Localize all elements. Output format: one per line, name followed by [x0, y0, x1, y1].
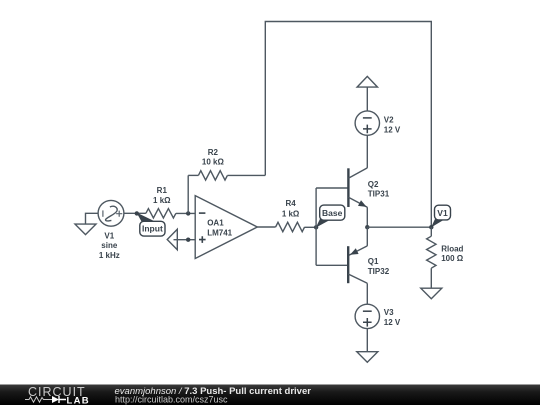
wire feedback loop up over top to output node [265, 22, 431, 228]
svg-text:Q1: Q1 [368, 257, 379, 266]
svg-text:V3: V3 [384, 308, 394, 317]
transistor Q1 emitter wire from output node [366, 227, 368, 246]
svg-text:http://circuitlab.com/csz7usc: http://circuitlab.com/csz7usc [115, 394, 228, 404]
wire Q1 collector down to V3 [366, 283, 368, 304]
wire to Q1 base [316, 264, 348, 266]
logo zigzag wire [25, 397, 52, 402]
V1 minus tick [102, 210, 104, 216]
wire Q2 collector up to V2 [366, 135, 368, 168]
voltage source V1 circle [98, 200, 124, 226]
V3 minus sign [363, 310, 372, 312]
node inverting input junction dot [186, 211, 190, 215]
flag Input box [140, 221, 165, 236]
svg-text:12 V: 12 V [384, 125, 401, 134]
wire V1 node to Rload [430, 227, 432, 236]
wire Q2 emitter down to output node [366, 207, 368, 227]
wire emitters junction to V1 node [367, 226, 431, 228]
wire arrow to V2 [366, 87, 368, 111]
svg-text:R4: R4 [285, 199, 296, 208]
svg-text:V1: V1 [104, 232, 114, 241]
transistor Q1 base bar [347, 246, 349, 283]
svg-text:12 V: 12 V [384, 318, 401, 327]
svg-text:Q2: Q2 [368, 180, 379, 189]
wire V1 to R1 [124, 212, 146, 214]
ground (op-amp non-inverting input, rotated left) [167, 229, 177, 250]
svg-text:Rload: Rload [441, 245, 463, 254]
wire R4 to base rail [305, 226, 317, 228]
svg-text:10 kΩ: 10 kΩ [202, 158, 225, 167]
wire junction up to R2 [187, 175, 189, 213]
resistor R2 [198, 171, 227, 180]
wire Rload to ground [430, 268, 432, 288]
svg-text:V2: V2 [384, 116, 394, 125]
wire op-amp output to R4 [257, 226, 275, 228]
wire V1 left lead to ground [86, 213, 99, 224]
svg-text:OA1: OA1 [207, 218, 224, 227]
svg-text:Base: Base [322, 208, 343, 218]
svg-text:sine: sine [101, 241, 118, 250]
Q2 collector diagonal [348, 168, 367, 178]
node plus input junction dot [186, 238, 190, 242]
node V1 output junction dot [429, 225, 433, 229]
power arrow above V2 [357, 76, 377, 87]
resistor Rload [427, 236, 436, 268]
Q1 collector diagonal [348, 274, 367, 283]
flag Base pointer [316, 219, 330, 228]
logo diode symbol [52, 396, 59, 403]
ground (left of V1) [75, 224, 96, 235]
svg-text:100 Ω: 100 Ω [441, 254, 464, 263]
svg-text:TIP31: TIP31 [368, 190, 390, 199]
transistor Q2 base bar [347, 168, 349, 207]
flag V1 pointer [431, 219, 444, 228]
node output emitters junction dot [365, 225, 369, 229]
V3 plus sign [363, 318, 372, 327]
V2 minus sign [363, 117, 372, 119]
OA1 minus input sign [199, 212, 206, 214]
node Input junction dot [135, 211, 139, 215]
svg-text:R1: R1 [157, 186, 168, 195]
svg-text:1 kΩ: 1 kΩ [282, 209, 300, 218]
flag V1 box [435, 205, 451, 220]
wire R2 right lead [227, 174, 265, 176]
svg-text:LM741: LM741 [207, 229, 232, 238]
wire base rail vertical [315, 188, 317, 265]
footer bar [0, 385, 540, 405]
svg-text:R2: R2 [208, 148, 219, 157]
svg-text:1 kΩ: 1 kΩ [153, 196, 171, 205]
V2 plus sign [363, 125, 372, 134]
wire ground to op-amp plus input [174, 239, 196, 241]
resistor R4 [276, 222, 305, 231]
ground (below V3) [357, 352, 378, 363]
svg-text:LAB: LAB [67, 395, 90, 405]
V1 sine squiggle [106, 206, 118, 221]
wire to Q2 base [316, 187, 348, 189]
voltage source V3 circle [355, 304, 379, 328]
op-amp OA1 triangle [195, 196, 257, 259]
flag Base box [320, 205, 345, 220]
wire R2 left lead [188, 174, 198, 176]
Q1 emitter arrow [350, 248, 359, 255]
svg-text:TIP32: TIP32 [368, 267, 390, 276]
resistor R1 [146, 209, 176, 218]
Q1 emitter diagonal [348, 246, 367, 256]
OA1 plus input sign [199, 236, 206, 243]
wire R1 to op-amp inverting input [176, 212, 195, 214]
svg-text:Input: Input [142, 223, 163, 233]
voltage source V2 circle [355, 111, 379, 135]
svg-text:V1: V1 [437, 208, 448, 218]
svg-text:1 kHz: 1 kHz [99, 251, 120, 260]
Q2 emitter diagonal [348, 197, 367, 207]
wire V3 to ground [366, 329, 368, 352]
flag Input pointer [137, 213, 154, 225]
ground (below Rload) [421, 288, 442, 299]
Q2 emitter arrow [358, 200, 367, 207]
node Base junction dot [314, 225, 318, 229]
V1 plus sign [116, 211, 122, 217]
